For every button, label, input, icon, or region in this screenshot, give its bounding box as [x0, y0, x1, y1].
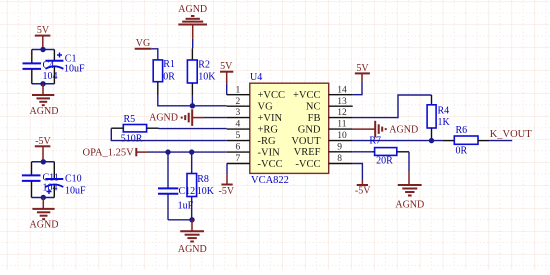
junction C12 branch [165, 149, 170, 154]
junction at ground rail [189, 217, 194, 222]
svg-text:+VIN: +VIN [258, 113, 283, 124]
wire pin 12 FB up and over to R4 [353, 95, 432, 118]
pin 9 VREF [294, 142, 353, 158]
svg-text:+VCC: +VCC [258, 90, 286, 101]
svg-text:AGND: AGND [389, 124, 418, 135]
svg-text:R1: R1 [163, 59, 175, 70]
net label OPA_1.25V [83, 147, 148, 158]
svg-text:VCA822: VCA822 [251, 175, 289, 186]
power port -5V (bottom-left) [35, 136, 52, 162]
wire OPA_1.25V to pin 6 [147, 151, 227, 153]
svg-text:6: 6 [236, 143, 241, 153]
svg-text:NC: NC [306, 102, 321, 113]
svg-text:7: 7 [236, 154, 241, 164]
power port 5V (top-left) [35, 25, 51, 49]
svg-text:AGND: AGND [149, 113, 178, 124]
pin 6 -VIN [227, 143, 280, 159]
svg-text:-VIN: -VIN [258, 147, 281, 158]
wire top rail of C1/C4 loop [32, 49, 55, 51]
wire pin 10 VOUT to R6 [353, 140, 443, 142]
wire bottom rail of C1/C4 loop [32, 83, 55, 85]
svg-text:-VCC: -VCC [258, 159, 283, 170]
junction R2 on pin2 wire [190, 103, 195, 108]
svg-text:1K: 1K [438, 117, 451, 128]
svg-text:R6: R6 [456, 125, 468, 136]
svg-text:3: 3 [236, 108, 241, 118]
svg-text:13: 13 [337, 97, 347, 107]
ground AGND (below C12/R8) [178, 220, 207, 255]
pin 12 FB [308, 108, 353, 124]
svg-text:R7: R7 [369, 136, 381, 147]
ground AGND (top-left) [30, 84, 59, 117]
capacitor C10 10uF (polarized) [45, 162, 86, 198]
resistor R5 510R [111, 114, 158, 145]
power port 5V (at pin 1) [220, 61, 233, 83]
wire R1/R2 to pin 2 [158, 95, 227, 106]
svg-text:OPA_1.25V: OPA_1.25V [83, 147, 135, 158]
svg-text:R4: R4 [438, 106, 450, 117]
resistor R6 0R [443, 125, 490, 156]
svg-text:12: 12 [337, 108, 347, 118]
svg-text:VOUT: VOUT [291, 136, 321, 147]
junction at lower AGND rail [41, 195, 46, 200]
svg-text:10uF: 10uF [65, 185, 86, 196]
power port -5V (at pin 7) [219, 164, 235, 197]
svg-text:1: 1 [236, 85, 241, 95]
svg-text:8: 8 [337, 154, 342, 164]
ground AGND (top-middle, inverted) [178, 4, 207, 39]
resistor R2 10K [187, 59, 216, 95]
resistor R4 1K [427, 105, 450, 141]
svg-text:AGND: AGND [30, 106, 59, 117]
power port VG [135, 38, 152, 49]
power port 5V (at pin 14) [355, 63, 370, 81]
pin 4 +RG [227, 120, 279, 136]
wire AGND to R2 [192, 39, 194, 49]
pin 3 +VIN [227, 108, 283, 124]
wire R5 left down to pin 5 [111, 128, 226, 140]
svg-text:K_VOUT: K_VOUT [490, 129, 533, 140]
svg-text:+VCC: +VCC [293, 90, 321, 101]
svg-text:C12: C12 [179, 186, 196, 197]
pin 7 -VCC [227, 154, 283, 170]
capacitor C11 104 [22, 162, 59, 198]
ground AGND (bottom-left) [30, 198, 59, 231]
svg-text:10K: 10K [197, 186, 215, 197]
junction at -5V rail [41, 159, 46, 164]
capacitor C1 10uF (polarized) [45, 50, 85, 84]
svg-text:10: 10 [337, 131, 347, 141]
wire R7 down to ground [408, 152, 410, 172]
pin 8 -VCC [295, 154, 352, 170]
svg-text:VG: VG [258, 102, 274, 113]
svg-text:GND: GND [298, 124, 321, 135]
svg-text:2: 2 [236, 97, 241, 107]
wire AGND to pin 3 [204, 117, 227, 119]
svg-text:20R: 20R [376, 155, 393, 166]
ground AGND (at pin 11, rotated) [353, 121, 418, 138]
svg-text:-5V: -5V [355, 186, 371, 197]
junction R8 branch [189, 149, 194, 154]
wire bottom rail of C10/C11 loop [32, 197, 55, 199]
svg-text:-RG: -RG [258, 136, 277, 147]
svg-text:5V: 5V [220, 61, 233, 72]
capacitor C12 labels [178, 186, 196, 212]
power port -5V (at pin 8) [353, 164, 372, 197]
svg-text:5V: 5V [37, 25, 50, 36]
wire 5V to pin 1 [226, 83, 228, 94]
svg-text:11: 11 [337, 120, 346, 130]
junction at 5V rail [40, 47, 45, 52]
capacitor C12 1uF [158, 152, 178, 220]
svg-text:10uF: 10uF [64, 64, 85, 75]
svg-text:AGND: AGND [395, 199, 424, 210]
wire top rail of C10/C11 loop [32, 161, 55, 163]
svg-text:0R: 0R [163, 72, 175, 83]
resistor R7 20R [353, 136, 409, 167]
svg-text:-5V: -5V [219, 186, 235, 197]
resistor R8 10K [187, 152, 215, 220]
svg-text:9: 9 [337, 142, 342, 152]
capacitor C4 104 [23, 50, 58, 84]
svg-text:510R: 510R [121, 133, 143, 144]
svg-text:4: 4 [236, 120, 241, 130]
svg-text:0R: 0R [456, 145, 468, 156]
wire C12 bottom to R8 bottom [168, 219, 192, 221]
pin 13 NC [306, 97, 353, 113]
pin 1 +VCC [227, 85, 285, 101]
op-amp U4 VCA822 body [250, 72, 329, 186]
svg-text:10K: 10K [198, 71, 216, 82]
svg-text:AGND: AGND [178, 244, 207, 255]
svg-text:-VCC: -VCC [295, 159, 320, 170]
svg-text:5: 5 [236, 131, 241, 141]
svg-text:VREF: VREF [294, 147, 321, 158]
svg-text:R2: R2 [198, 59, 210, 70]
svg-text:AGND: AGND [30, 220, 59, 231]
pin 5 -RG [227, 131, 276, 147]
svg-text:104: 104 [43, 71, 58, 82]
junction at AGND rail [40, 81, 45, 86]
ground AGND (at pin 3, rotated) [149, 109, 204, 126]
junction R4 on VOUT wire [429, 138, 434, 143]
wire R6 to K_VOUT [490, 140, 513, 142]
svg-text:C10: C10 [65, 173, 82, 184]
resistor R1 0R [153, 59, 175, 95]
wire pin 14 to 5V [353, 81, 362, 94]
pin 2 VG [227, 97, 273, 113]
wire R5 right to pin 4 [159, 128, 227, 130]
svg-text:U4: U4 [250, 72, 262, 83]
pin 10 VOUT [291, 131, 352, 147]
pin 11 GND [298, 120, 353, 136]
svg-text:FB: FB [308, 113, 321, 124]
svg-text:VG: VG [136, 38, 150, 49]
svg-text:14: 14 [337, 85, 347, 95]
pin 14 +VCC [293, 85, 353, 101]
svg-text:1uF: 1uF [178, 200, 194, 211]
svg-text:R5: R5 [124, 114, 136, 125]
svg-text:R8: R8 [197, 174, 209, 185]
ground AGND (below R7) [395, 172, 424, 210]
svg-text:AGND: AGND [178, 4, 207, 15]
svg-text:+RG: +RG [258, 124, 279, 135]
wire VG to R1 [151, 49, 158, 60]
